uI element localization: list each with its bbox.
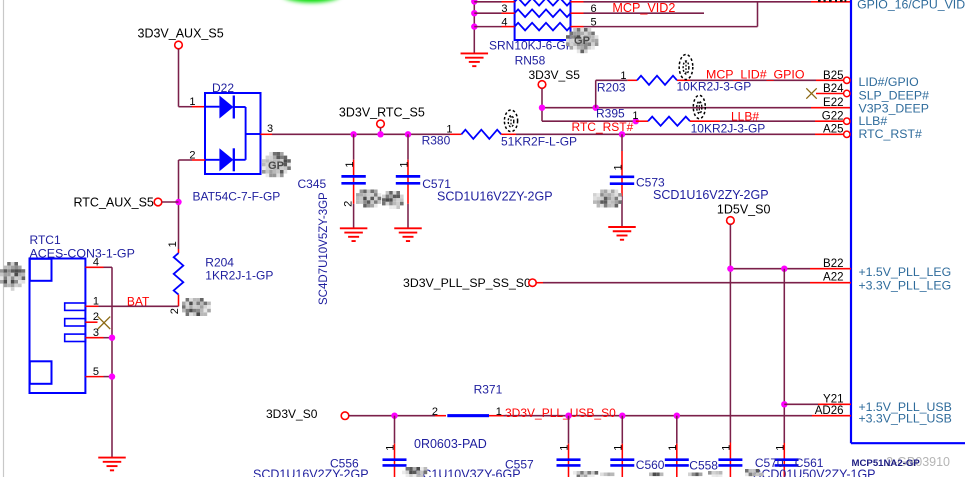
svg-text:4: 4 [501, 17, 507, 29]
svg-text:C345: C345 [298, 177, 327, 191]
svg-text:1: 1 [612, 445, 624, 451]
svg-text:SCD1U16V2ZY-2GP: SCD1U16V2ZY-2GP [653, 188, 769, 202]
svg-text:2: 2 [169, 308, 181, 314]
svg-text:SC1U10V3ZY-6GP: SC1U10V3ZY-6GP [414, 468, 521, 477]
svg-text:SCD01U50V2ZY-1GP: SCD01U50V2ZY-1GP [753, 468, 876, 477]
svg-text:LID#/GPIO: LID#/GPIO [859, 75, 919, 89]
svg-text:RTC_RST#: RTC_RST# [859, 127, 922, 141]
svg-text:RTC_RST#: RTC_RST# [572, 120, 634, 134]
svg-text:R371: R371 [474, 383, 503, 397]
svg-text:3D3V_AUX_S5: 3D3V_AUX_S5 [138, 26, 224, 40]
svg-text:SCD1U16V2ZY-2GP: SCD1U16V2ZY-2GP [253, 468, 369, 477]
svg-text:SC4D7U10V5ZY-3GP: SC4D7U10V5ZY-3GP [318, 192, 330, 305]
svg-text:MCP_LID#_GPIO: MCP_LID#_GPIO [706, 68, 805, 82]
svg-text:A22: A22 [823, 271, 843, 283]
svg-text:2: 2 [432, 406, 438, 418]
svg-text:LLB#: LLB# [731, 110, 759, 124]
svg-text:1: 1 [189, 96, 195, 108]
svg-text:3D3V_PLL_SP_SS_S0: 3D3V_PLL_SP_SS_S0 [403, 276, 531, 290]
svg-text:1D5V_S0: 1D5V_S0 [717, 202, 771, 216]
svg-text:3D3V_S5: 3D3V_S5 [529, 68, 581, 82]
svg-text:RN58: RN58 [515, 54, 546, 68]
svg-text:+3.3V_PLL_LEG: +3.3V_PLL_LEG [859, 279, 952, 293]
svg-text:SCD1U16V2ZY-2GP: SCD1U16V2ZY-2GP [437, 190, 553, 204]
svg-text:1: 1 [559, 445, 571, 451]
svg-text:1KR2J-1-GP: 1KR2J-1-GP [205, 269, 273, 283]
svg-text:3D3V_PLL_USB_S0: 3D3V_PLL_USB_S0 [505, 406, 616, 420]
svg-text:1: 1 [496, 406, 502, 418]
svg-text:1: 1 [720, 445, 732, 451]
svg-text:10KR2J-3-GP: 10KR2J-3-GP [677, 80, 752, 94]
svg-text:R380: R380 [422, 134, 451, 148]
svg-text:1: 1 [632, 110, 638, 122]
svg-text:B25: B25 [823, 70, 843, 82]
svg-text:51KR2F-L-GP: 51KR2F-L-GP [501, 135, 577, 149]
svg-text:3D3V_S0: 3D3V_S0 [266, 407, 318, 421]
svg-text:G22: G22 [822, 110, 844, 122]
svg-text:GP: GP [268, 160, 284, 172]
svg-text:V3P3_DEEP: V3P3_DEEP [859, 101, 929, 115]
svg-text:R203: R203 [597, 81, 626, 95]
svg-text:0R0603-PAD: 0R0603-PAD [414, 437, 487, 451]
svg-text:A25: A25 [823, 124, 843, 136]
svg-text:2: 2 [343, 201, 355, 207]
svg-text:3: 3 [501, 3, 507, 15]
svg-text:C558: C558 [689, 459, 718, 473]
svg-text:C560: C560 [636, 458, 665, 472]
svg-text:B24: B24 [823, 83, 844, 95]
svg-text:+1.5V_PLL_LEG: +1.5V_PLL_LEG [859, 265, 952, 279]
svg-text:1: 1 [167, 241, 179, 247]
svg-text:1: 1 [774, 445, 786, 451]
svg-text:1: 1 [613, 164, 625, 170]
svg-text:D22: D22 [212, 81, 234, 95]
svg-text:1: 1 [344, 161, 356, 167]
svg-text:R395: R395 [596, 107, 625, 121]
svg-text:+3.3V_PLL_USB: +3.3V_PLL_USB [859, 412, 952, 426]
svg-text:BAT54C-7-F-GP: BAT54C-7-F-GP [193, 190, 281, 204]
svg-text:BAT: BAT [127, 295, 150, 309]
svg-text:RTC1: RTC1 [30, 233, 61, 247]
svg-text:R204: R204 [205, 256, 234, 270]
svg-text:SRN10KJ-6-GP: SRN10KJ-6-GP [489, 39, 574, 53]
svg-text:E22: E22 [823, 97, 843, 109]
svg-text:GP: GP [574, 35, 590, 47]
svg-text:3: 3 [267, 123, 273, 135]
svg-text:1: 1 [667, 445, 679, 451]
svg-text:LLB#: LLB# [859, 114, 888, 128]
svg-text:1: 1 [385, 445, 397, 451]
svg-text:GPIO_16/CPU_VID2: GPIO_16/CPU_VID2 [857, 0, 965, 11]
svg-text:RTC_AUX_S5: RTC_AUX_S5 [74, 196, 154, 210]
svg-text:MCP_VID2: MCP_VID2 [612, 1, 675, 15]
svg-text:SLP_DEEP#: SLP_DEEP# [859, 88, 930, 102]
svg-text:1: 1 [399, 161, 411, 167]
svg-text:3D3V_RTC_S5: 3D3V_RTC_S5 [339, 106, 425, 120]
